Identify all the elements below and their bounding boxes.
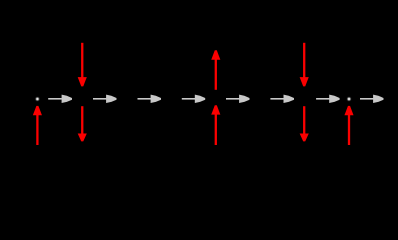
gray reaction arrow H [360, 95, 384, 103]
node dot right (ellipsis state) [348, 98, 351, 101]
red input arrow up at left dot [33, 106, 42, 145]
red input arrow up at right dot [344, 106, 353, 145]
red inflow arrow up into node 2 (bottom) [211, 105, 220, 145]
gray reaction arrow C [138, 95, 162, 103]
gray reaction arrow B [93, 95, 117, 103]
red outflow arrow down from node 1 (bottom) [78, 106, 87, 141]
red outflow arrow up from node 2 (top) [211, 50, 220, 90]
gray reaction arrow D [182, 95, 205, 103]
red inflow arrow down into node 3 (top) [300, 43, 309, 87]
node dot left (ellipsis state) [36, 98, 39, 101]
gray reaction arrow A [48, 95, 72, 103]
gray reaction arrow F [270, 95, 294, 103]
gray reaction arrow E [226, 95, 250, 103]
gray reaction arrow G [316, 95, 340, 103]
red outflow arrow down from node 3 (bottom) [300, 106, 309, 141]
red inflow arrow down into node 1 (top) [78, 43, 87, 87]
